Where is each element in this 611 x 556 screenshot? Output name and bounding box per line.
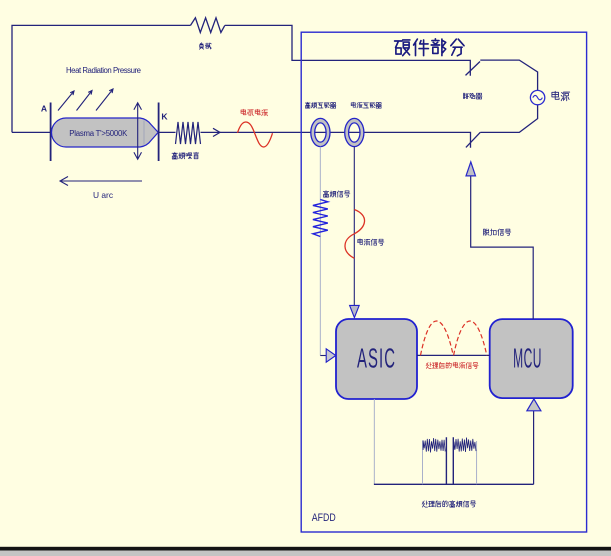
AC source 电源 (generator symbol)	[530, 90, 544, 104]
label 高频互感器	[305, 102, 310, 108]
svg-text:AFDD: AFDD	[312, 512, 336, 524]
label 处理后的电流信号 (red)	[426, 363, 431, 369]
breaker top pole blade	[466, 62, 481, 76]
plasma arc column (capsule)	[51, 118, 158, 147]
wire: breaker top to AC source	[480, 60, 537, 90]
label 脱扣信号 (trip signal)	[484, 229, 490, 235]
wire: electrode K to noise coil	[159, 131, 176, 133]
svg-text:MCU: MCU	[513, 344, 542, 374]
label 高频噪音	[172, 152, 178, 159]
wire: main line from branch to electrode A	[12, 131, 51, 133]
arrow into ASIC left	[326, 349, 336, 362]
heat radiation arrows (3 diagonal)	[58, 89, 113, 111]
transformer T1 高频互感器 (HF current transformer)	[311, 118, 330, 146]
svg-text:Plasma T'>5000K: Plasma T'>5000K	[69, 129, 128, 138]
label 高频信号	[323, 191, 328, 198]
noise coil 高频噪音 (HF noise source)	[176, 122, 201, 144]
HF signal zigzag 高频信号	[313, 200, 328, 237]
label 电流互感器	[351, 102, 356, 107]
resistor R1 load (负载)	[191, 18, 225, 33]
processed HF signal line (ASIC bottom drop)	[373, 399, 375, 484]
arrow into MCU bottom	[527, 399, 541, 411]
transformer T2 电流互感器 (current transformer)	[345, 118, 364, 146]
svg-text:U arc: U arc	[93, 190, 113, 200]
label 断路器 (breaker)	[464, 93, 469, 99]
current signal sine (red)	[345, 210, 365, 259]
label 电流信号	[358, 239, 363, 245]
wire: load resistor to breaker top contact	[225, 25, 470, 75]
MCU U2 box	[490, 319, 573, 398]
title 硬件部分	[395, 40, 410, 56]
svg-text:A: A	[41, 104, 47, 114]
wire: ASIC to MCU	[417, 354, 490, 356]
processed HF signal baseline	[374, 483, 534, 485]
arrow into ASIC top	[350, 305, 360, 317]
vertical double-headed arrow (pressure)	[134, 103, 142, 159]
processed HF burst waveform 2	[454, 438, 476, 453]
wire: noise coil to transformers	[201, 132, 471, 147]
arc current sine (red)	[238, 122, 273, 147]
ASIC U1 box	[336, 319, 417, 399]
label 电源 (power source)	[552, 91, 559, 99]
wire: AC source to breaker bottom	[480, 105, 537, 132]
svg-text:K: K	[161, 112, 168, 122]
label 负载 (load)	[199, 43, 203, 49]
hardware section box (硬件部分)	[301, 32, 586, 532]
burst packet boundary ticks	[423, 441, 477, 485]
label 处理后的高频信号	[422, 501, 427, 507]
svg-text:Heat Radiation Pressure: Heat Radiation Pressure	[66, 66, 141, 75]
electrode K plate	[158, 103, 160, 162]
window bottom bar	[0, 547, 611, 551]
wire: baseline up to MCU bottom arrow	[533, 411, 535, 485]
shaped current humps (red)	[421, 321, 487, 355]
wire: left loop top (branch A to load resistor)	[12, 25, 191, 132]
electrode A plate	[50, 103, 52, 162]
trip arrow to breaker	[466, 162, 476, 176]
HF signal line (transformer T1 to ASIC)	[319, 147, 321, 356]
trip signal path (MCU to breaker)	[471, 176, 534, 319]
processed HF burst waveform 1	[423, 438, 445, 452]
svg-text:ASIC: ASIC	[357, 343, 396, 374]
current signal line (transformer T2 to ASIC top)	[353, 147, 355, 306]
breaker bottom pole blade	[466, 132, 480, 147]
label 电弧电流 (arc current, red)	[241, 109, 246, 115]
arrowhead on main wire	[213, 128, 220, 136]
U arc direction arrow	[60, 177, 142, 186]
